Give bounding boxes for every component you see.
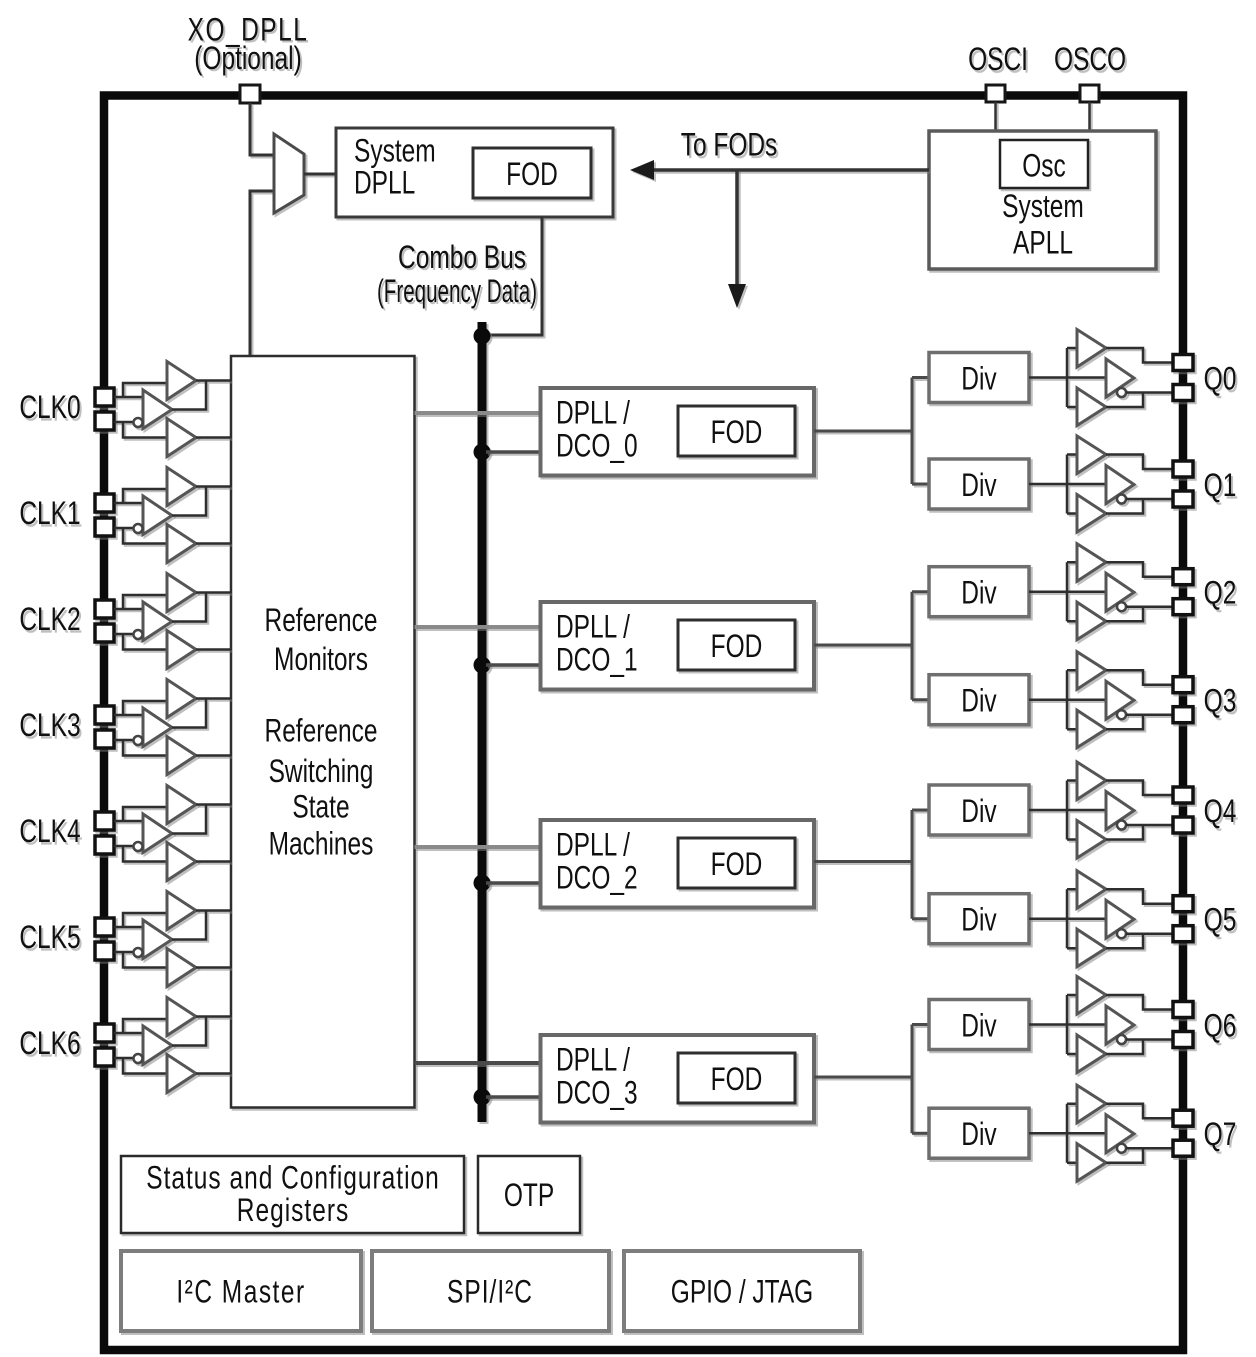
svg-text:Q2: Q2 xyxy=(1204,575,1237,611)
wire reference monitors to DPLL/DCO_1 xyxy=(415,625,541,629)
pin XO_DPLL xyxy=(240,85,260,103)
label CLK2 xyxy=(19,602,80,638)
Q3 output pins xyxy=(1173,677,1193,723)
svg-text:Monitors: Monitors xyxy=(274,642,368,678)
svg-text:Q6: Q6 xyxy=(1204,1008,1237,1044)
block Osc inside APLL xyxy=(1000,140,1088,188)
CLK3 input wires xyxy=(114,701,167,756)
svg-text:CLK3: CLK3 xyxy=(19,708,80,744)
CLK0 input buffer triangles xyxy=(134,362,197,457)
wire combo bus to DPLL/DCO_1 xyxy=(486,663,541,667)
CLK4 input buffer triangles xyxy=(134,786,197,881)
svg-text:CLK4: CLK4 xyxy=(19,814,80,850)
label Q5 xyxy=(1204,902,1237,938)
CLK1 input wires xyxy=(114,489,167,544)
CLK5 input wires xyxy=(114,913,167,968)
svg-text:DCO_3: DCO_3 xyxy=(556,1075,638,1111)
wire combo bus to DPLL/DCO_2 xyxy=(486,881,541,885)
svg-text:GPIO / JTAG: GPIO / JTAG xyxy=(671,1274,813,1310)
pin OSCI xyxy=(986,85,1005,102)
svg-text:DCO_0: DCO_0 xyxy=(556,428,638,464)
svg-text:OSCO: OSCO xyxy=(1054,42,1126,78)
svg-text:Div: Div xyxy=(961,794,997,830)
Q1 output pins xyxy=(1173,461,1193,507)
chip outer boundary xyxy=(104,96,1183,1351)
Q1 output buffer triangles xyxy=(1077,436,1134,532)
Q2 output buffer triangles xyxy=(1077,544,1134,640)
wire Div to Q6 output buffers xyxy=(1029,995,1106,1054)
CLK5 input pins xyxy=(95,918,114,960)
Q2 output wires to pins xyxy=(1106,562,1173,621)
wire OSCI to Osc xyxy=(994,102,997,141)
Q0 output pins xyxy=(1173,355,1193,401)
combo bus thick vertical net xyxy=(474,322,491,1122)
Q1 output wires to pins xyxy=(1106,455,1173,514)
CLK3 input pins xyxy=(95,706,114,748)
Q2 output pins xyxy=(1173,569,1193,615)
wire DPLL/DCO_0 output to dividers xyxy=(814,378,929,485)
label CLK0 xyxy=(19,390,80,426)
CLK5 input buffer triangles xyxy=(134,892,197,987)
Q7 output buffer triangles xyxy=(1077,1085,1134,1181)
svg-text:FOD: FOD xyxy=(711,629,763,665)
CLK0 buffer output wires to reference monitors xyxy=(172,381,231,438)
Q4 output buffer triangles xyxy=(1077,762,1134,858)
pin OSCO xyxy=(1080,85,1099,102)
CLK6 input wires xyxy=(114,1019,167,1074)
block Reference Monitors / Reference Switching State Machines xyxy=(231,356,415,1108)
divider Div for Q1 xyxy=(929,459,1029,509)
svg-text:FOD: FOD xyxy=(711,1062,763,1098)
Q3 output buffer triangles xyxy=(1077,652,1134,748)
wire combo bus to DPLL/DCO_3 xyxy=(486,1095,541,1099)
svg-text:I²C Master: I²C Master xyxy=(176,1274,305,1310)
wire Div to Q3 output buffers xyxy=(1029,670,1106,729)
Q6 output pins xyxy=(1173,1002,1193,1048)
wire Div to Q0 output buffers xyxy=(1029,348,1106,407)
label Q6 xyxy=(1204,1008,1237,1044)
svg-text:Q7: Q7 xyxy=(1204,1117,1237,1153)
CLK4 buffer output wires to reference monitors xyxy=(172,805,231,862)
wire XO_DPLL pin to mux input xyxy=(250,103,274,155)
wire DPLL/DCO_3 output to dividers xyxy=(814,1025,929,1134)
label To FODs xyxy=(681,127,778,163)
svg-text:(Frequency Data): (Frequency Data) xyxy=(377,272,537,309)
CLK2 input pins xyxy=(95,600,114,642)
svg-text:OTP: OTP xyxy=(504,1178,554,1214)
Q0 output wires to pins xyxy=(1106,348,1173,407)
Q5 output wires to pins xyxy=(1106,889,1173,948)
svg-text:(Optional): (Optional) xyxy=(194,41,302,77)
svg-text:Machines: Machines xyxy=(269,826,374,862)
block DPLL/DCO_0 xyxy=(541,388,815,476)
CLK6 input pins xyxy=(95,1024,114,1066)
svg-text:Q3: Q3 xyxy=(1204,683,1237,719)
divider Div for Q7 xyxy=(929,1108,1029,1158)
CLK6 input buffer triangles xyxy=(134,998,197,1093)
svg-text:SPI/I²C: SPI/I²C xyxy=(447,1274,533,1310)
label Q1 xyxy=(1204,468,1237,504)
svg-text:Div: Div xyxy=(961,468,997,504)
CLK4 input wires xyxy=(114,807,167,862)
block FOD inside DPLL/DCO_0 xyxy=(678,406,795,456)
svg-text:CLK5: CLK5 xyxy=(19,920,80,956)
svg-text:CLK0: CLK0 xyxy=(19,390,80,426)
label CLK5 xyxy=(19,920,80,956)
Q6 output buffer triangles xyxy=(1077,977,1134,1073)
svg-text:FOD: FOD xyxy=(506,157,558,193)
svg-text:DCO_1: DCO_1 xyxy=(556,642,638,678)
svg-text:Q0: Q0 xyxy=(1204,361,1237,397)
divider Div for Q6 xyxy=(929,1000,1029,1050)
label CLK6 xyxy=(19,1026,80,1062)
svg-text:Status and Configuration: Status and Configuration xyxy=(146,1160,440,1196)
wire Div to Q2 output buffers xyxy=(1029,562,1106,621)
svg-text:System: System xyxy=(1002,189,1084,225)
label CLK4 xyxy=(19,814,80,850)
CLK1 buffer output wires to reference monitors xyxy=(172,487,231,544)
svg-text:Div: Div xyxy=(961,1117,997,1153)
svg-text:FOD: FOD xyxy=(711,847,763,883)
CLK0 input pins xyxy=(95,388,114,430)
Q3 output wires to pins xyxy=(1106,670,1173,729)
block DPLL/DCO_2 xyxy=(541,820,815,908)
wire To FODs branch down with arrowhead xyxy=(728,170,746,308)
CLK5 buffer output wires to reference monitors xyxy=(172,911,231,968)
wire mux output to System DPLL xyxy=(304,173,336,176)
svg-text:Osc: Osc xyxy=(1022,148,1066,184)
divider Div for Q4 xyxy=(929,785,1029,835)
block Status and Configuration Registers xyxy=(121,1156,464,1233)
wire Div to Q5 output buffers xyxy=(1029,889,1106,948)
svg-text:Combo Bus: Combo Bus xyxy=(398,240,526,276)
svg-text:DPLL /: DPLL / xyxy=(556,395,630,431)
CLK3 buffer output wires to reference monitors xyxy=(172,699,231,756)
CLK1 input buffer triangles xyxy=(134,468,197,563)
svg-text:DPLL /: DPLL / xyxy=(556,827,630,863)
block FOD inside DPLL/DCO_3 xyxy=(678,1053,795,1103)
svg-text:FOD: FOD xyxy=(711,415,763,451)
label Q0 xyxy=(1204,361,1237,397)
Q4 output wires to pins xyxy=(1106,781,1173,840)
svg-text:Registers: Registers xyxy=(237,1193,349,1229)
svg-text:Q1: Q1 xyxy=(1204,468,1237,504)
CLK4 input pins xyxy=(95,812,114,854)
wire reference monitors to DPLL/DCO_0 xyxy=(415,411,541,415)
divider Div for Q0 xyxy=(929,353,1029,403)
svg-text:System: System xyxy=(354,133,436,169)
svg-text:OSCI: OSCI xyxy=(968,42,1028,78)
block FOD inside DPLL/DCO_2 xyxy=(678,838,795,888)
Q6 output wires to pins xyxy=(1106,995,1173,1054)
block DPLL/DCO_3 xyxy=(541,1035,815,1123)
svg-text:State: State xyxy=(292,789,349,825)
svg-text:Div: Div xyxy=(961,361,997,397)
CLK2 input wires xyxy=(114,595,167,650)
CLK1 input pins xyxy=(95,494,114,536)
label OSCO xyxy=(1054,42,1126,78)
label Q2 xyxy=(1204,575,1237,611)
divider Div for Q2 xyxy=(929,567,1029,617)
label CLK1 xyxy=(19,496,80,532)
wire Div to Q4 output buffers xyxy=(1029,781,1106,840)
block DPLL/DCO_1 xyxy=(541,602,815,690)
svg-text:Reference: Reference xyxy=(265,603,378,639)
wire DPLL/DCO_2 output to dividers xyxy=(814,810,929,919)
CLK2 buffer output wires to reference monitors xyxy=(172,593,231,650)
wire reference monitors to DPLL/DCO_2 xyxy=(415,845,541,849)
Q4 output pins xyxy=(1173,787,1193,833)
wire OSCO to Osc xyxy=(1088,102,1091,141)
svg-text:CLK6: CLK6 xyxy=(19,1026,80,1062)
svg-text:APLL: APLL xyxy=(1013,225,1073,261)
label Q7 xyxy=(1204,1117,1237,1153)
svg-text:Q4: Q4 xyxy=(1204,794,1237,830)
svg-text:Switching: Switching xyxy=(269,754,374,790)
label Q3 xyxy=(1204,683,1237,719)
svg-text:CLK2: CLK2 xyxy=(19,602,80,638)
wire System DPLL to combo bus xyxy=(486,217,542,335)
CLK0 input wires xyxy=(114,383,167,438)
CLK3 input buffer triangles xyxy=(134,680,197,775)
block OTP xyxy=(478,1156,580,1233)
wire reference monitors to mux lower input xyxy=(250,191,274,356)
wire Div to Q1 output buffers xyxy=(1029,455,1106,514)
wire DPLL/DCO_1 output to dividers xyxy=(814,592,929,700)
mux (reference select) xyxy=(274,134,304,213)
svg-text:DPLL /: DPLL / xyxy=(556,609,630,645)
svg-text:Reference: Reference xyxy=(265,713,378,749)
svg-text:DPLL /: DPLL / xyxy=(556,1042,630,1078)
svg-text:Div: Div xyxy=(961,575,997,611)
Q5 output buffer triangles xyxy=(1077,871,1134,967)
wire combo bus to DPLL/DCO_0 xyxy=(486,450,541,454)
block System DPLL xyxy=(336,128,613,217)
label OSCI xyxy=(968,42,1028,78)
label Combo Bus (Frequency Data) xyxy=(377,240,537,309)
block System APLL xyxy=(929,131,1156,269)
label XO_DPLL (Optional) xyxy=(188,12,309,77)
svg-text:To FODs: To FODs xyxy=(681,127,778,163)
Q7 output wires to pins xyxy=(1106,1104,1173,1163)
svg-text:Div: Div xyxy=(961,902,997,938)
wire APLL to FODs (horizontal) with arrowhead xyxy=(630,160,929,180)
svg-text:DCO_2: DCO_2 xyxy=(556,860,638,896)
block SPI/I2C xyxy=(372,1251,609,1331)
Q0 output buffer triangles xyxy=(1077,330,1134,426)
svg-text:CLK1: CLK1 xyxy=(19,496,80,532)
wire Div to Q7 output buffers xyxy=(1029,1104,1106,1163)
block GPIO / JTAG xyxy=(624,1251,860,1331)
svg-text:Q5: Q5 xyxy=(1204,902,1237,938)
label CLK3 xyxy=(19,708,80,744)
svg-text:Div: Div xyxy=(961,683,997,719)
svg-text:DPLL: DPLL xyxy=(354,165,415,201)
block FOD inside System DPLL xyxy=(473,148,591,198)
CLK6 buffer output wires to reference monitors xyxy=(172,1017,231,1074)
wire reference monitors to DPLL/DCO_3 xyxy=(415,1061,541,1065)
divider Div for Q3 xyxy=(929,675,1029,725)
svg-text:Div: Div xyxy=(961,1008,997,1044)
divider Div for Q5 xyxy=(929,894,1029,944)
block FOD inside DPLL/DCO_1 xyxy=(678,620,795,670)
label Q4 xyxy=(1204,794,1237,830)
CLK2 input buffer triangles xyxy=(134,574,197,669)
block I2C Master xyxy=(121,1251,361,1331)
Q5 output pins xyxy=(1173,896,1193,942)
Q7 output pins xyxy=(1173,1110,1193,1156)
